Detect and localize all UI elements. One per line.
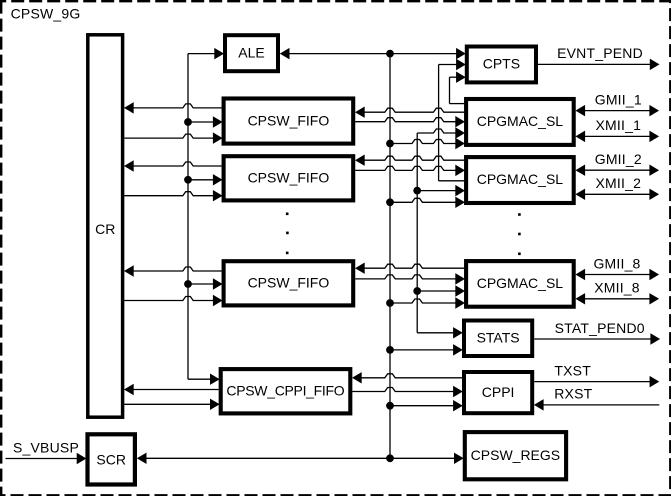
junction bus C / CPGMAC_SL2 [413,187,421,195]
junction bus B / STATS [386,346,394,354]
wire STAT_PEND0 output [534,334,659,344]
wire GMII_2 port [576,165,659,175]
wire CPSW_FIFO1 to CR [125,103,222,113]
wire CPGMAC_SL8 to CPSW_FIFO8 [356,263,465,273]
wire bus D to CPTS [439,59,466,69]
block CPGMAC_SL 8 [466,261,574,307]
block CPSW_FIFO 8 [224,261,354,305]
wire bus A to CPSW_FIFO8 [188,279,222,289]
junction bus A / FIFO8 [184,280,192,288]
wire CPGMAC_SL2 to CPTS link [439,180,465,182]
svg-text:STATS: STATS [477,329,520,345]
label XMII_8 [594,280,640,296]
svg-text:CPTS: CPTS [483,56,520,72]
label RXST [554,386,592,402]
wire vertical bus D (CPTS-CPGMAC_SL2, x=438.6) [438,65,440,181]
wire CPSW_CPPI_FIFO to CR [125,384,219,394]
wire bus E to CPTS [450,72,466,82]
junction bus B / CPPI [386,402,394,410]
wire vertical bus B (main, x=390) [389,54,391,459]
svg-text:RXST: RXST [554,386,592,402]
junction bus B / CPGMAC_SL8 [386,299,394,307]
block CR [88,35,123,417]
wire bus B to CPGMAC_SL8 [390,298,464,308]
wire bus A to CPSW_FIFO2 [188,175,222,185]
block ALE [225,35,278,71]
block CPSW_FIFO 1 [224,99,354,144]
svg-text:STAT_PEND0: STAT_PEND0 [555,320,645,336]
svg-text:ALE: ALE [238,44,264,60]
svg-text:CPSW_9G: CPSW_9G [11,5,81,21]
label XMII_1 [596,117,642,133]
svg-text:CPGMAC_SL: CPGMAC_SL [477,171,564,187]
junction bus A / FIFO2 [184,176,192,184]
svg-text:TXST: TXST [554,362,591,378]
wire GMII_1 port [576,105,659,115]
block CPGMAC_SL 2 [466,157,574,203]
svg-text:CPSW_FIFO: CPSW_FIFO [248,275,330,291]
wire CPSW_CPPI_FIFO to CPPI [352,386,462,396]
wire TXST output [534,376,659,386]
svg-text:SCR: SCR [96,451,126,467]
svg-text:CPSW_FIFO: CPSW_FIFO [248,112,330,128]
wire bus B to STATS [390,345,462,355]
label STAT_PEND0 [555,320,645,336]
svg-text:CPPI: CPPI [482,384,515,400]
label GMII_8 [593,255,640,271]
svg-text:CPGMAC_SL: CPGMAC_SL [477,113,564,129]
svg-text:XMII_8: XMII_8 [594,280,640,296]
wire CR to CPSW_FIFO2 [124,191,222,201]
wire CPSW_FIFO8 to CPGMAC_SL8 [355,274,464,284]
svg-text:GMII_1: GMII_1 [595,91,642,107]
label S_VBUSP [13,439,79,455]
wire vertical bus E (CPTS-CPGMAC_SL1, x=449.5) [449,77,451,103]
wire XMII_2 port [576,189,659,199]
junction bus A / FIFO1 [184,118,192,126]
wire SCR to CPSW_REGS [137,453,463,463]
svg-text:CPSW_REGS: CPSW_REGS [471,447,560,463]
wire S_VBUSP input [6,453,86,463]
svg-text:CPGMAC_SL: CPGMAC_SL [477,275,564,291]
wire CPGMAC_SL1 to CPTS link [450,103,465,105]
wire bus C to CPGMAC_SL1 [417,128,464,138]
svg-text:GMII_8: GMII_8 [593,255,640,271]
svg-text:XMII_1: XMII_1 [596,117,642,133]
wire CPSW_FIFO8 to CR [125,266,222,276]
wire CPGMAC_SL1 to CPSW_FIFO1 [356,107,465,117]
block CPSW_FIFO 2 [224,156,354,200]
label CPSW_9G title [11,5,81,21]
wire CR to CPSW_CPPI_FIFO [124,399,219,409]
junction bus B / CPGMAC_SL2 [386,198,394,206]
block CPPI [464,372,532,413]
block CPTS [467,47,536,83]
svg-text:GMII_2: GMII_2 [595,151,642,167]
block STATS [464,321,532,357]
junction bus B top [386,50,394,58]
junction bus B / SCR-REGS [386,454,394,462]
block SCR [88,434,135,484]
wire vertical bus C (x=417) [416,133,418,333]
wire CR to CPSW_FIFO8 [124,295,222,305]
svg-text:EVNT_PEND: EVNT_PEND [557,45,643,61]
wire XMII_8 port [576,294,659,304]
wire bus C to STATS [417,328,462,338]
wire CPSW_FIFO2 to CPGMAC_SL2 [355,165,464,175]
wire CPSW_FIFO1 to CPGMAC_SL1 [355,117,464,127]
ellipsis dot CPGMAC column 3 [518,253,521,256]
wire bus C to CPGMAC_SL8 [417,286,464,296]
ellipsis dot FIFO column 3 [286,252,289,255]
wire XMII_1 port [576,131,659,141]
ellipsis dot FIFO column 2 [286,232,289,235]
wire CR to CPSW_FIFO1 [124,133,222,143]
svg-text:CPSW_FIFO: CPSW_FIFO [248,169,330,185]
svg-text:S_VBUSP: S_VBUSP [13,439,79,455]
label GMII_2 [595,151,642,167]
junction bus B / CPGMAC_SL1 [386,140,394,148]
wire bus A to ALE [188,48,223,58]
wire bus C to CPGMAC_SL2 [417,185,464,195]
ellipsis dot CPGMAC column 1 [518,213,521,216]
wire CPSW_FIFO2 to CR [125,161,222,171]
junction bus C / CPGMAC_SL8 [413,287,421,295]
block CPSW_CPPI_FIFO [221,369,351,413]
block CPSW_REGS [465,432,566,479]
label GMII_1 [595,91,642,107]
wire bus B to CPGMAC_SL2 [390,197,464,207]
wire bus A to CPSW_FIFO1 [188,117,222,127]
ellipsis dot FIFO column 1 [286,213,289,216]
wire CPGMAC_SL2 to CPSW_FIFO2 [356,155,465,165]
svg-text:XMII_2: XMII_2 [596,175,642,191]
wire EVNT_PEND output [538,59,659,69]
wire bus B to CPPI [390,401,462,411]
wire CPPI to CPSW_CPPI_FIFO [353,373,463,383]
wire vertical bus A (ALE feed, x=188) [187,54,189,380]
label EVNT_PEND [557,45,643,61]
wire bus A to CPSW_CPPI_FIFO [188,374,219,384]
ellipsis dot CPGMAC column 2 [518,233,521,236]
wire bus B to CPGMAC_SL1 [390,138,464,148]
label XMII_2 [596,175,642,191]
block CPGMAC_SL 1 [466,99,574,145]
wire GMII_8 port [576,269,659,279]
svg-text:CPSW_CPPI_FIFO: CPSW_CPPI_FIFO [226,382,344,398]
wire ALE to CPTS [280,48,465,58]
wire RXST input [535,400,660,410]
label TXST [554,362,591,378]
svg-text:CR: CR [95,221,115,237]
